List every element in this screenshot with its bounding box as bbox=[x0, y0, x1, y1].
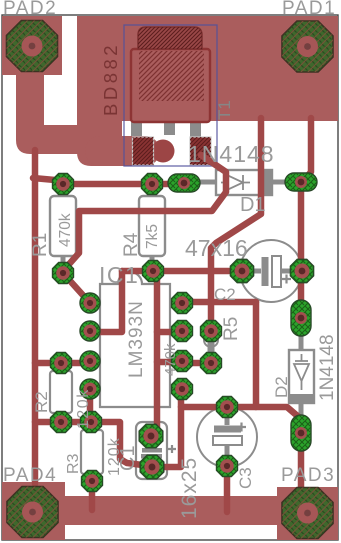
svg-text:PAD2: PAD2 bbox=[3, 0, 57, 19]
wire branch to IC pad / R5 row 332 bbox=[157, 329, 182, 336]
resistor R2 bbox=[50, 368, 72, 417]
wire IC pin row4 down to C1 bottom bbox=[178, 390, 185, 466]
svg-text:7k5: 7k5 bbox=[144, 224, 161, 249]
transistor T1 pad 2 (round) bbox=[152, 140, 175, 163]
resistor R4 bbox=[139, 190, 165, 264]
pad D2 cathode bbox=[291, 415, 311, 451]
pad R2 top bbox=[51, 353, 72, 374]
svg-text:R4: R4 bbox=[121, 232, 142, 257]
wires (signal traces) bbox=[33, 118, 311, 512]
pad PAD1 bbox=[282, 21, 333, 72]
svg-text:R5: R5 bbox=[221, 317, 242, 341]
pad PAD4 bbox=[7, 487, 58, 538]
wire y271: junction to C2 left pad bbox=[122, 268, 241, 275]
svg-text:1N4148: 1N4148 bbox=[188, 141, 275, 167]
wire IC left pin4 to R3 top bbox=[87, 390, 94, 422]
svg-text:R3: R3 bbox=[65, 453, 82, 474]
wire IC1 pin2 branch down-left bbox=[90, 271, 122, 332]
capacitor C1 bbox=[136, 422, 176, 479]
wire branch to IC pad row 362 bbox=[157, 359, 182, 366]
svg-text:C1: C1 bbox=[117, 445, 139, 471]
wire R5 bottom pads row bbox=[181, 360, 211, 367]
wire PAD2 rail: left vertical down to PAD4 pour bbox=[32, 150, 39, 484]
pad R1 bottom bbox=[53, 263, 74, 284]
wire D2 cathode to bottom pour bbox=[298, 438, 305, 505]
pad R1 top bbox=[53, 174, 74, 195]
pad D1 cathode bbox=[285, 173, 317, 191]
transistor T1 pad 3 (hatched square) bbox=[190, 137, 211, 165]
pad PAD3 bbox=[282, 488, 333, 539]
pad R4 top bbox=[142, 174, 163, 195]
wire y407 horizontal through C3 top to D2 cathode pad bbox=[181, 407, 301, 419]
bottom pour bar bbox=[65, 496, 277, 525]
resistor R3 bbox=[81, 427, 103, 477]
diode D2 bbox=[289, 322, 314, 424]
wire R1 bottom to IC1 pad 1 bbox=[63, 273, 90, 303]
pad IC1 pin row left 1-4 bbox=[80, 293, 100, 313]
pad R3 top bbox=[81, 412, 102, 433]
svg-text:16x25: 16x25 bbox=[178, 457, 201, 519]
svg-text:470k: 470k bbox=[57, 213, 74, 247]
capacitor C2 (electrolytic 47x16) bbox=[240, 240, 302, 302]
svg-text:PAD1: PAD1 bbox=[282, 0, 336, 19]
pad IC1 pin row right 1-4 bbox=[172, 293, 193, 314]
pour square around PAD4 bbox=[2, 482, 65, 540]
svg-text:R1: R1 bbox=[30, 233, 51, 257]
resistor R1 bbox=[50, 190, 76, 266]
pad R5 right column bbox=[201, 321, 222, 342]
transistor T1 legs bbox=[131, 120, 201, 140]
svg-text:BD882: BD882 bbox=[100, 42, 121, 116]
svg-text:PAD4: PAD4 bbox=[3, 465, 57, 486]
wire C3 bottom to bottom pour bbox=[224, 466, 231, 512]
wire corner down to y407 bbox=[253, 302, 260, 407]
wire R4 bottom down to C1 top bbox=[152, 272, 157, 435]
wide trace from PAD2 pour elbow bbox=[16, 75, 95, 154]
wire C1 bottom to that vertical bbox=[152, 464, 181, 471]
wire stub to R1 top bbox=[33, 178, 55, 180]
transistor T1 body outline bbox=[131, 27, 210, 122]
pad R4 bottom bbox=[143, 261, 164, 282]
svg-text:470k: 470k bbox=[162, 343, 179, 376]
svg-text:1N4148: 1N4148 bbox=[317, 334, 338, 401]
capacitor C3 (electrolytic 16x25) bbox=[197, 407, 257, 467]
pad R3 bottom bbox=[82, 471, 103, 492]
wire pour stub down diagonal to R5 top-right pad bbox=[211, 118, 261, 331]
wire R1 top to R4 top to D1 anode bbox=[63, 181, 184, 188]
svg-text:T1: T1 bbox=[215, 100, 234, 120]
svg-text:C3: C3 bbox=[236, 467, 255, 489]
svg-text:PAD3: PAD3 bbox=[281, 465, 335, 486]
wire branch to R2 top / IC1 pin 2 bbox=[35, 360, 90, 367]
transistor T1 package frame bbox=[124, 25, 217, 166]
pad R2 bottom bbox=[51, 412, 72, 433]
wire branch through R2 bottom, R3 top, elbow to C1 bottom bbox=[35, 422, 150, 466]
svg-text:D2: D2 bbox=[272, 376, 291, 398]
pour square around PAD3 bbox=[277, 487, 338, 540]
wire IC right pin y302 to corner bbox=[182, 299, 256, 306]
svg-text:120k: 120k bbox=[75, 388, 92, 429]
pad C3 top bbox=[217, 397, 238, 418]
svg-text:D1: D1 bbox=[240, 194, 266, 216]
pad C1 bottom bbox=[140, 455, 164, 479]
op-amp IC1 LM393N DIP-8 body bbox=[100, 272, 170, 407]
diode D1 bbox=[193, 170, 288, 195]
svg-text:C2: C2 bbox=[214, 285, 236, 304]
transistor T1 pad 1 (hatched square) bbox=[133, 137, 154, 165]
wire transistor pad3 down through D1 body, along y211, to R1 bottom bbox=[63, 155, 226, 271]
pad C1 top bbox=[139, 424, 163, 448]
copper pour top (bottom layer polygon) bbox=[77, 16, 338, 166]
pad PAD2 bbox=[7, 21, 58, 72]
svg-text:IC1: IC1 bbox=[99, 262, 139, 288]
pad C2 right bbox=[290, 259, 313, 282]
pad D2 anode bbox=[291, 300, 311, 336]
pad C2 left bbox=[230, 259, 253, 282]
thick blob trace to transistor pad 1 bbox=[100, 136, 145, 166]
wire pour to D1 cathode bbox=[303, 118, 311, 181]
svg-text:LM393N: LM393N bbox=[126, 300, 147, 378]
svg-text:R2: R2 bbox=[32, 391, 51, 413]
wire D1 cathode down through C2 right to D2 anode bbox=[298, 185, 305, 312]
trimmer R5 wiper bar bbox=[208, 341, 215, 356]
pad D1 anode bbox=[168, 174, 200, 192]
pour square around PAD2 bbox=[2, 16, 62, 75]
pad C3 bottom bbox=[217, 456, 238, 477]
wire R3 bottom to bottom pour bbox=[89, 483, 96, 510]
svg-text:47x16: 47x16 bbox=[185, 235, 248, 261]
